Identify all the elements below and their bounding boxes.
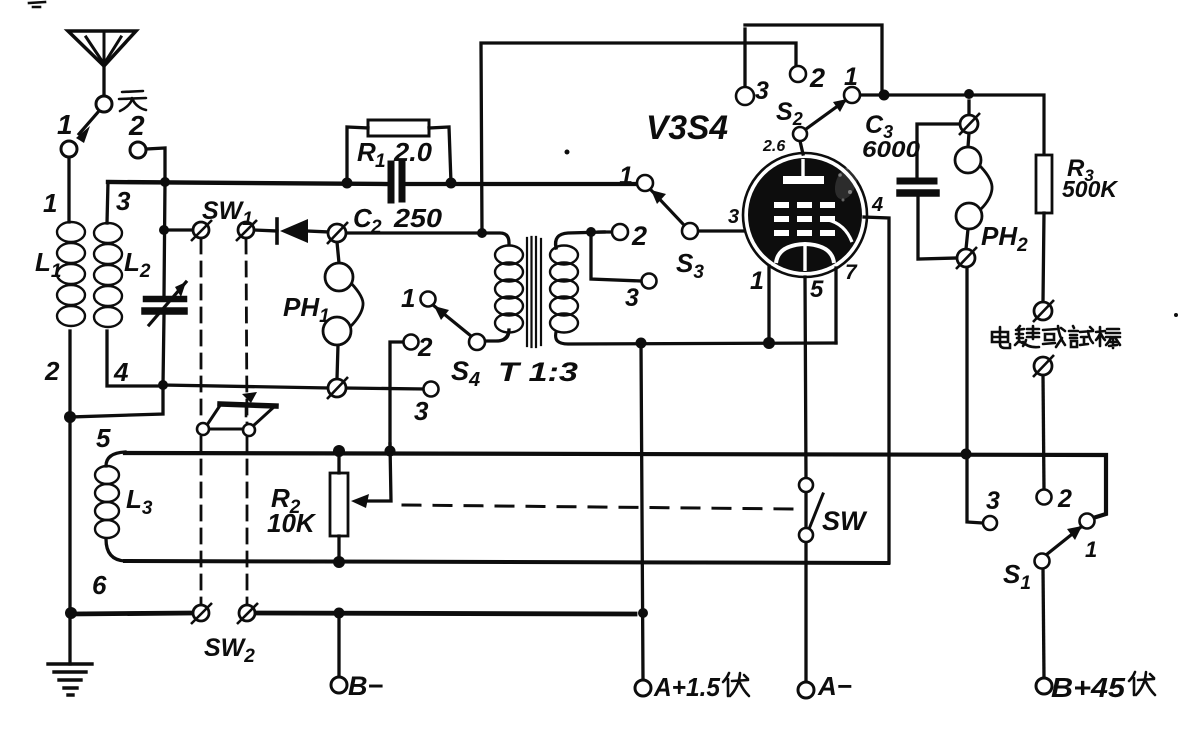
svg-text:1: 1	[43, 188, 57, 218]
svg-text:5: 5	[96, 423, 111, 453]
svg-text:B+45: B+45	[1051, 672, 1125, 703]
svg-text:2.0: 2.0	[393, 137, 433, 167]
svg-text:2: 2	[370, 217, 382, 238]
svg-text:L2: L2	[124, 247, 151, 282]
svg-text:500K: 500K	[1062, 176, 1118, 202]
svg-text:PH1: PH1	[283, 292, 330, 327]
svg-text:3: 3	[625, 284, 639, 312]
svg-text:SW2: SW2	[204, 634, 255, 667]
svg-text:2: 2	[417, 332, 433, 362]
svg-text:2.6: 2.6	[762, 138, 785, 155]
svg-text:V3S4: V3S4	[646, 109, 728, 147]
svg-text:3: 3	[728, 206, 739, 228]
svg-text:2: 2	[631, 221, 647, 251]
svg-text:2: 2	[44, 356, 60, 386]
svg-text:4: 4	[871, 194, 883, 216]
svg-text:7: 7	[845, 261, 858, 284]
svg-text:3: 3	[414, 396, 429, 426]
svg-text:3: 3	[755, 77, 769, 105]
svg-text:A+1.5: A+1.5	[653, 672, 720, 702]
svg-text:6: 6	[92, 570, 107, 600]
svg-text:3: 3	[986, 487, 1000, 515]
svg-text:250: 250	[393, 203, 443, 233]
svg-text:S2: S2	[776, 98, 803, 129]
svg-text:1: 1	[1085, 537, 1097, 562]
svg-text:4: 4	[113, 357, 129, 387]
svg-text:1: 1	[844, 63, 858, 91]
svg-text:1: 1	[750, 267, 764, 295]
svg-text:R: R	[357, 137, 376, 167]
svg-text:2: 2	[1057, 485, 1072, 513]
svg-text:SW1: SW1	[202, 197, 253, 230]
svg-text:B−: B−	[348, 671, 383, 701]
svg-text:S3: S3	[676, 248, 704, 283]
svg-text:S1: S1	[1003, 559, 1031, 594]
svg-text:2: 2	[809, 63, 825, 93]
svg-text:S4: S4	[451, 356, 480, 391]
svg-text:3: 3	[116, 186, 131, 216]
svg-text:1: 1	[375, 151, 386, 172]
svg-text:1: 1	[619, 162, 633, 190]
svg-text:PH2: PH2	[981, 221, 1028, 256]
svg-text:1: 1	[57, 109, 73, 140]
svg-text:6000: 6000	[862, 136, 920, 162]
svg-text:L3: L3	[126, 484, 153, 519]
svg-text:2: 2	[128, 110, 145, 141]
svg-text:10K: 10K	[267, 508, 317, 538]
svg-text:1: 1	[401, 283, 415, 313]
svg-text:A−: A−	[817, 671, 852, 701]
svg-text:SW: SW	[822, 506, 868, 536]
svg-text:C: C	[353, 203, 373, 233]
svg-text:T 1:3: T 1:3	[498, 357, 578, 387]
svg-text:5: 5	[810, 276, 824, 303]
